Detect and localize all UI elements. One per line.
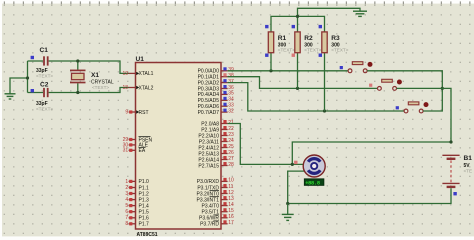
pin 19 XTAL1 [129,72,136,74]
svg-text:31: 31 [123,148,129,154]
switch SW2 (push button, P0.1 net) [369,79,402,90]
pin 33 P0.6/AD6 [221,105,228,107]
svg-text:14: 14 [228,202,234,208]
svg-text:<TEXT>: <TEXT> [304,48,321,53]
junction R1 bottom lead on P0.0 net [269,69,272,72]
svg-text:<TEXT>: <TEXT> [92,85,109,90]
pin 34 P0.5/AD5 [221,99,228,101]
resistor R3 300 [319,25,349,57]
pin 11 P3.1/TXD [221,187,228,189]
svg-text:17: 17 [228,220,234,226]
svg-text:8: 8 [125,221,128,227]
svg-text:5: 5 [125,203,128,209]
svg-text:<TEXT>: <TEXT> [278,48,295,53]
svg-text:C2: C2 [40,81,49,88]
pin 8 P1.7 [129,223,136,225]
capacitor C2 33pF [31,81,54,111]
wire SW1 output to common vertical [367,71,442,111]
svg-text:9: 9 [125,109,128,115]
svg-text:R3: R3 [331,35,340,42]
wire ground stub [287,204,289,215]
pin 29 PSEN [129,139,136,141]
pin 23 P2.2/A10 [221,135,228,137]
wire R1 bottom lead [270,53,272,71]
svg-text:EA: EA [139,148,146,154]
ground (top right, resistor rail) [353,11,367,16]
svg-text:<TEXT>: <TEXT> [331,48,348,53]
wire ground branch left [10,78,28,94]
switch SW3 (push button, P0.2 net) [396,102,429,113]
junction R2 lead at top rail [296,15,299,18]
svg-text:RST: RST [139,110,149,116]
wire XTAL2 net: caps/crystal bottom rail to U1 pin 18 [28,88,130,93]
wire R2 bottom lead [297,53,299,89]
pin 13 P3.3/INT1 [221,199,228,201]
svg-text:U1: U1 [136,56,145,63]
wire XTAL1 net: caps/crystal top rail to U1 pin 19 [28,61,130,73]
svg-text:<TEXT>: <TEXT> [36,107,53,112]
switch SW1 (push button, P0.0 net) [340,62,373,73]
ground (bottom, motor/battery return) [282,214,294,220]
pin 12 P3.2/INT0 [221,193,228,195]
svg-text:XTAL2: XTAL2 [139,85,154,91]
wire left vertical link C1-C2 [27,61,29,93]
svg-text:AT89C51: AT89C51 [137,232,158,238]
junction motor feed / battery drop [291,163,294,166]
pin 25 P2.4/A12 [221,147,228,149]
svg-text:R1: R1 [278,35,287,42]
junction battery positive [449,140,452,143]
pin 30 ALE [129,144,136,146]
svg-text:P1.5: P1.5 [139,210,150,216]
wire resistor top rail to ground [271,8,360,32]
ground (left of crystal) [5,94,16,99]
svg-text:P1.2: P1.2 [139,191,150,197]
wire net P0.1: pin38 jog down then to SW2 [228,77,378,89]
wire motor lower terminal to ground rail [288,171,304,203]
capacitor C1 33pF [31,47,54,79]
svg-text:C1: C1 [40,47,49,54]
pin 39 P0.0/AD0 [221,70,228,72]
pin 37 P0.2/AD2 [221,82,228,84]
wire crystal top lead [77,61,79,70]
pin 14 P3.4/T0 [221,205,228,207]
junction SW2 output crossing common vertical [441,87,444,90]
svg-text:6: 6 [125,209,128,215]
wire bottom ground rail [288,188,451,203]
pin 6 P1.5 [129,211,136,213]
microcontroller U1 AT89C51 [136,63,222,230]
svg-text:P1.0: P1.0 [139,179,150,185]
wire net P2.0: pin21 to motor [228,124,303,165]
svg-text:19: 19 [122,71,128,77]
svg-text:18: 18 [122,85,128,91]
pin 22 P2.1/A9 [221,129,228,131]
junction at C1/C2 link and ground branch [26,76,29,79]
svg-text:P1.7: P1.7 [139,222,150,228]
pin 7 P1.6 [129,217,136,219]
pin 5 P1.4 [129,205,136,207]
pin 32 P0.7/AD7 [221,111,228,113]
junction ground rail left [286,202,289,205]
svg-text:15: 15 [228,208,234,214]
pin 10 P3.0/RXD [221,180,228,182]
resistor R2 300 [292,25,322,57]
pin 9 RST [129,111,136,113]
svg-text:<TEXT>: <TEXT> [36,74,53,79]
wire R3 bottom lead [324,53,326,111]
motor rpm display [304,179,324,187]
pin 21 P2.0/A8 [221,123,228,125]
wire SW2 output to battery positive [397,88,452,142]
node junction crystal/XTAL1 rail [76,59,79,62]
pin 17 P3.7/RD [221,223,228,225]
pin 27 P2.6/A14 [221,159,228,161]
pin 38 P0.1/AD1 [221,76,228,78]
svg-text:X1: X1 [91,72,99,79]
resistor R1 300 [265,25,295,57]
svg-text:P3.0/RXD: P3.0/RXD [197,179,220,185]
motor M1 [294,155,325,177]
svg-text:1: 1 [125,179,128,185]
svg-text:P1.4: P1.4 [139,203,150,209]
pin 35 P0.4/AD4 [221,93,228,95]
svg-text:XTAL1: XTAL1 [139,71,154,77]
svg-text:+88.8: +88.8 [305,180,320,186]
pin 1 P1.0 [129,180,136,182]
pin 36 P0.3/AD3 [221,88,228,90]
svg-text:12: 12 [228,190,234,196]
pin 2 P1.1 [129,187,136,189]
svg-text:<TE: <TE [464,168,473,173]
crystal X1 [70,70,114,89]
svg-text:B1: B1 [464,155,473,162]
svg-text:32: 32 [228,108,234,114]
svg-text:3: 3 [125,191,128,197]
junction R3 bottom lead on P0.2 net [323,109,326,112]
node junction crystal/XTAL2 rail [76,91,79,94]
pin 16 P3.6/WR [221,217,228,219]
svg-text:P2.7/A15: P2.7/A15 [198,163,219,169]
junction R2 bottom lead on P0.1 net [296,87,299,90]
pin 15 P3.5/T1 [221,211,228,213]
pin 31 EA [129,149,136,151]
svg-text:R2: R2 [304,35,313,42]
wire battery positive rail to motor top [292,142,451,164]
pin 26 P2.5/A13 [221,153,228,155]
wire net P0.2: pin37 jog down then to SW3 [228,83,405,111]
wire crystal bottom lead [77,83,79,92]
battery B1 5V [442,155,472,195]
wire net P0.0: pin39 to R1 and SW1 [228,70,349,72]
svg-text:P3.7/RD: P3.7/RD [200,222,219,228]
svg-text:10: 10 [228,178,234,184]
pin 18 XTAL2 [129,87,136,89]
pin 24 P2.3/A11 [221,141,228,143]
svg-text:P3.4/T0: P3.4/T0 [201,203,219,209]
pin 4 P1.3 [129,199,136,201]
pin 28 P2.7/A15 [221,165,228,167]
svg-text:P0.7/AD7: P0.7/AD7 [198,110,220,116]
svg-text:28: 28 [228,162,234,168]
pin 3 P1.2 [129,193,136,195]
